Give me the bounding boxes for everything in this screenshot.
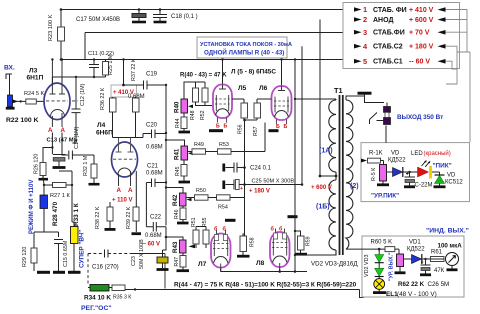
wire R28 bottom <box>34 209 59 249</box>
svg-text:Б: Б <box>224 124 228 130</box>
junction input <box>20 100 22 102</box>
svg-text:С15 0.65М: С15 0.65М <box>63 240 69 267</box>
svg-text:R34 10 K: R34 10 K <box>84 295 111 302</box>
wire terminal stubs right <box>446 10 471 143</box>
svg-text:R27 1 К: R27 1 К <box>50 193 70 199</box>
svg-text:РЕГ."ОС": РЕГ."ОС" <box>81 305 112 312</box>
svg-text:R48: R48 <box>190 110 196 120</box>
svg-text:R54: R54 <box>218 205 228 211</box>
meter 100uA <box>431 253 459 270</box>
terminal box power connector <box>343 3 460 69</box>
note box bias setting <box>197 37 287 58</box>
wire anode bus x295 <box>294 60 296 272</box>
svg-text:R53: R53 <box>219 142 229 148</box>
svg-text:R29 120: R29 120 <box>22 247 28 267</box>
resistor R23 <box>48 14 65 41</box>
svg-text:R60 5 K: R60 5 K <box>371 240 393 246</box>
capacitor C17 <box>132 10 146 23</box>
arrow R42 wiper <box>187 198 192 202</box>
svg-text:Л7: Л7 <box>198 261 207 268</box>
junction C19 node <box>165 84 167 86</box>
wire to jack <box>365 96 385 103</box>
diode VD2 green <box>378 249 380 254</box>
wire terminal4 drop to +180 <box>245 46 303 184</box>
wire C13 bottom row <box>59 171 72 185</box>
resistor R-1K <box>368 158 381 163</box>
ground output <box>358 92 372 95</box>
resistor R59 <box>298 236 305 250</box>
ground R39 <box>132 232 142 235</box>
junction +180 <box>301 183 304 186</box>
wire R42 row to R50 <box>186 197 195 199</box>
svg-text:R52: R52 <box>200 110 206 120</box>
svg-text:R33 1 К: R33 1 К <box>73 203 80 226</box>
ground bar L5 <box>209 129 223 132</box>
svg-text:100 мкА: 100 мкА <box>438 243 463 250</box>
wire anode join y77 <box>52 77 105 109</box>
svg-text:R32 1 М: R32 1 М <box>83 155 89 176</box>
svg-text:R40: R40 <box>174 101 181 113</box>
svg-text:R43: R43 <box>172 241 179 253</box>
svg-text:СТАБ.С2: СТАБ.С2 <box>373 44 403 51</box>
ground R22 <box>6 107 15 110</box>
svg-text:C20: C20 <box>146 123 158 129</box>
svg-text:б: б <box>214 226 218 233</box>
svg-text:"ПИК": "ПИК" <box>433 163 452 170</box>
tube L8 <box>270 229 290 272</box>
svg-text:R45: R45 <box>175 166 181 176</box>
terminal 1 arrow <box>354 7 362 12</box>
svg-text:C21: C21 <box>147 164 159 170</box>
ground bar left3 <box>68 271 81 274</box>
zener VD KS512 <box>434 175 446 187</box>
wire R27 left drop <box>43 176 44 196</box>
svg-text:Л (5 - 8) 6П45С: Л (5 - 8) 6П45С <box>231 69 276 76</box>
resistor R55 <box>203 230 209 244</box>
resistor R34 green <box>90 285 109 292</box>
ground R38 <box>105 228 116 231</box>
wire top +410 rail <box>61 9 354 11</box>
svg-text:LED: LED <box>411 151 423 157</box>
resistor R58 <box>240 236 247 252</box>
svg-text:6Н6П: 6Н6П <box>96 130 113 137</box>
svg-text:(48 V - 100 V): (48 V - 100 V) <box>397 291 437 298</box>
capacitor C18 <box>153 10 167 23</box>
resistor R56 <box>241 103 248 118</box>
svg-text:C16 (270): C16 (270) <box>92 265 119 271</box>
svg-text:+ 600 V: + 600 V <box>311 185 332 191</box>
svg-text:R55: R55 <box>202 217 208 227</box>
svg-text:5: 5 <box>363 57 367 66</box>
capacitor C23 <box>157 257 168 263</box>
resistor R28 blue <box>40 195 48 209</box>
resistor R36 <box>110 98 117 112</box>
wire terminal2 drop to transformer <box>319 20 321 177</box>
wire +410 box top <box>123 60 125 86</box>
wire L4 anode bus <box>113 112 136 138</box>
arrow R43 wiper <box>189 245 196 249</box>
resistor R52 <box>202 88 208 102</box>
svg-text:Т1: Т1 <box>334 86 343 95</box>
arrow R40 wiper <box>188 105 193 109</box>
svg-text:R50: R50 <box>196 188 206 194</box>
transformer primary 1B <box>295 176 336 255</box>
svg-text:+ 110 V: + 110 V <box>112 198 133 204</box>
wire LED to zener <box>432 172 440 176</box>
svg-text:+ 180 V: + 180 V <box>249 189 270 195</box>
svg-text:C17 50M X450B: C17 50M X450B <box>76 17 120 23</box>
junction R56 R57 <box>243 119 246 122</box>
svg-text:0.68М: 0.68М <box>146 145 163 151</box>
wire secondary top to ground <box>346 95 365 101</box>
svg-text:(красный): (красный) <box>424 150 451 157</box>
tube L3 <box>44 60 78 127</box>
svg-text:УСТАНОВКА ТОКА ПОКОЯ - 30мА: УСТАНОВКА ТОКА ПОКОЯ - 30мА <box>200 42 292 48</box>
svg-text:"ИНД. ВЫХ.": "ИНД. ВЫХ." <box>426 228 469 235</box>
wire R51 R55 tops <box>196 227 206 231</box>
resistor R61 <box>431 257 445 262</box>
svg-text:3: 3 <box>363 28 367 37</box>
capacitor C13 <box>53 155 66 168</box>
svg-text:СТАБ. ФИ: СТАБ. ФИ <box>373 7 407 14</box>
svg-text:+: + <box>240 186 243 192</box>
ground bar L7 top <box>225 219 236 222</box>
terminal 5 left arrow <box>438 59 446 64</box>
terminal 2 left arrow <box>438 17 446 22</box>
resistor R54 <box>217 195 231 200</box>
svg-text:R23 100 K: R23 100 K <box>48 14 54 41</box>
junction top R23 <box>60 8 63 11</box>
resistor R45 <box>181 165 187 177</box>
svg-text:+ 410 V: + 410 V <box>409 7 434 14</box>
potentiometer R43 <box>166 227 183 240</box>
svg-text:ВХ.: ВХ. <box>4 65 15 72</box>
svg-text:Л4: Л4 <box>97 122 106 129</box>
resistor R47 <box>180 256 186 268</box>
svg-text:VD: VD <box>391 151 400 157</box>
capacitor C14 <box>69 151 94 160</box>
svg-text:C12 (1М): C12 (1М) <box>80 83 86 106</box>
svg-text:(1А): (1А) <box>319 148 333 155</box>
svg-text:R38 22 K: R38 22 K <box>95 206 101 229</box>
capacitor C24 <box>224 163 245 173</box>
svg-text:VD1: VD1 <box>409 240 421 246</box>
label +410 box <box>111 85 137 97</box>
junction R41 node <box>165 139 167 141</box>
wire R33 column <box>72 185 74 227</box>
svg-text:R37 22 К: R37 22 К <box>131 58 137 81</box>
ground R46 <box>177 222 189 225</box>
ground bar L6 <box>269 129 279 132</box>
svg-text:Л8: Л8 <box>256 260 265 267</box>
capacitor C22 <box>146 222 166 232</box>
capacitor C12 <box>72 109 81 143</box>
ground bar left2 <box>53 271 65 274</box>
svg-text:R(44 - 47) = 75 K R(48 - 51): R(44 - 47) = 75 K R(48 - 51)=100 K R(52-… <box>174 282 357 289</box>
svg-text:50М X 100В: 50М X 100В <box>139 239 145 269</box>
svg-text:1: 1 <box>363 5 367 14</box>
svg-text:VD: VD <box>447 173 456 179</box>
svg-text:0.68М: 0.68М <box>128 94 145 100</box>
wire primary top <box>295 99 336 100</box>
svg-text:R36 22 К: R36 22 К <box>100 87 106 110</box>
resistor R35 <box>112 285 125 291</box>
wire R52 drop <box>204 102 206 106</box>
svg-text:"УР. ВЫХ.": "УР. ВЫХ." <box>389 252 395 281</box>
svg-text:6Н1П: 6Н1П <box>27 75 44 82</box>
wire dashed C16 <box>88 254 102 285</box>
svg-text:С-22М: С-22М <box>415 183 433 189</box>
svg-text:ВЫХОД 350 Вт: ВЫХОД 350 Вт <box>397 114 443 121</box>
potentiometer R62 <box>397 254 404 267</box>
tube L7 <box>211 230 231 271</box>
ground R45 <box>179 181 191 184</box>
arrow R41 wiper <box>188 152 193 156</box>
arrow input <box>13 99 19 103</box>
resistor R26 <box>40 163 46 176</box>
svg-text:А: А <box>117 187 122 194</box>
svg-text:R46: R46 <box>174 209 180 219</box>
ground R59 <box>295 253 308 256</box>
terminal 4 arrow <box>354 44 362 49</box>
ground R47 <box>177 269 190 272</box>
svg-text:R44: R44 <box>175 118 181 128</box>
diode VD1 <box>412 254 422 264</box>
terminal 3 arrow <box>354 30 362 35</box>
wire secondary to indicator box <box>346 248 385 250</box>
svg-text:VD2 VD3-Д816Д: VD2 VD3-Д816Д <box>311 261 358 268</box>
wire -60/anode rail <box>62 59 354 61</box>
svg-text:0.68М: 0.68М <box>146 171 163 177</box>
ground bar left1 <box>37 271 50 274</box>
wire input to grid <box>13 100 45 102</box>
svg-text:C22: C22 <box>150 215 162 221</box>
wire jack to peak box <box>385 126 387 143</box>
capacitor C19 <box>124 81 167 90</box>
arrow peak input <box>361 159 367 163</box>
transformer core <box>340 95 343 255</box>
svg-text:ОДНОЙ ЛАМПЫ R (40 - 43): ОДНОЙ ЛАМПЫ R (40 - 43) <box>204 49 284 57</box>
resistor R22 <box>8 95 13 107</box>
svg-text:0.68М: 0.68М <box>145 233 162 239</box>
svg-text:R28 470: R28 470 <box>52 201 59 226</box>
ground R44 <box>179 131 191 134</box>
resistor R32 <box>91 164 97 178</box>
svg-text:R57: R57 <box>253 126 259 136</box>
lamp EL1 <box>374 279 385 292</box>
svg-text:2: 2 <box>363 15 367 24</box>
output indicator box <box>362 236 464 297</box>
svg-text:Б: Б <box>216 124 220 130</box>
resistor R38 <box>107 207 113 221</box>
svg-text:-- 60 V: -- 60 V <box>409 59 430 66</box>
tube L5 <box>213 85 232 123</box>
svg-text:R(40 - 43) = 47 K: R(40 - 43) = 47 K <box>180 73 227 79</box>
svg-text:Л5: Л5 <box>238 85 247 92</box>
wire stab-fi +70 rail <box>85 32 354 34</box>
terminal 4 left arrow <box>438 44 446 49</box>
wire C24 C25 node column <box>244 158 246 236</box>
wire L3 cathode right <box>62 133 68 156</box>
wire column to C23 <box>163 237 167 250</box>
svg-text:+ 600 V: + 600 V <box>409 17 434 24</box>
capacitor C26 <box>420 261 431 275</box>
terminal 2 arrow <box>354 17 362 22</box>
capacitor C16 <box>105 250 109 258</box>
wire node x85 <box>84 33 86 60</box>
wire VD1 out <box>422 259 430 265</box>
svg-text:R42: R42 <box>172 194 179 206</box>
svg-text:С25 50М X 300В: С25 50М X 300В <box>252 179 295 185</box>
diode VD KD522 <box>393 167 403 177</box>
svg-text:R49: R49 <box>194 142 204 148</box>
capacitor C11 <box>89 60 99 78</box>
junction R42 node <box>165 186 167 188</box>
resistor R49 <box>192 149 206 154</box>
svg-text:R59: R59 <box>306 236 312 246</box>
svg-text:R-5 К: R-5 К <box>371 167 377 181</box>
potentiometer R42 <box>166 188 183 194</box>
potentiometer R33 super <box>71 227 79 244</box>
resistor R27 <box>53 183 67 188</box>
resistor R60 <box>385 247 395 252</box>
svg-text:R61: R61 <box>431 250 443 256</box>
svg-text:СТАБ.ФИ: СТАБ.ФИ <box>373 30 405 37</box>
capacitor C21 <box>146 179 166 227</box>
ground EL1 <box>373 291 386 294</box>
svg-text:R41: R41 <box>174 148 181 160</box>
svg-text:R62 22 K: R62 22 K <box>398 281 425 288</box>
svg-text:R22 100 K: R22 100 K <box>6 117 39 124</box>
svg-text:C24 0.1: C24 0.1 <box>250 166 272 172</box>
diode VD3 green <box>378 263 380 269</box>
capacitor C-22M <box>404 172 415 187</box>
wire R41 row to R49 <box>188 151 193 153</box>
svg-text:R47: R47 <box>174 257 180 267</box>
svg-text:С23: С23 <box>131 256 137 266</box>
junction coupling column <box>165 132 167 134</box>
ground R58 <box>237 255 250 258</box>
svg-text:C13 (47 М): C13 (47 М) <box>47 138 76 144</box>
junction peak <box>408 171 411 174</box>
junction L3 anodes <box>51 58 53 60</box>
potentiometer R-5K <box>380 165 387 182</box>
svg-text:VD2 VD3: VD2 VD3 <box>364 255 370 277</box>
svg-text:КС512: КС512 <box>445 180 463 186</box>
svg-text:R39 22 К: R39 22 К <box>126 206 132 229</box>
svg-text:КД522: КД522 <box>388 158 406 164</box>
svg-text:СТАБ.С1: СТАБ.С1 <box>373 59 403 66</box>
resistor R24 <box>26 99 37 104</box>
resistor R25 <box>103 62 109 76</box>
ground R-5K <box>377 183 389 186</box>
resistor R53 <box>218 149 232 154</box>
terminal 1 left arrow <box>438 7 446 12</box>
potentiometer R41 <box>166 140 185 146</box>
svg-text:R35 3 К: R35 3 К <box>113 295 131 301</box>
junction R23 bottom <box>60 58 63 61</box>
svg-text:R56: R56 <box>238 124 244 134</box>
wire L5 anode <box>222 60 224 86</box>
wire peak chain <box>387 171 418 173</box>
output jack <box>370 103 391 125</box>
potentiometer R40 <box>181 99 188 113</box>
tube L4 <box>112 138 138 187</box>
svg-text:Л3: Л3 <box>29 68 38 75</box>
svg-text:А: А <box>128 187 133 194</box>
wire L6 anode <box>281 60 283 87</box>
wire center tap <box>320 175 336 177</box>
ground R32 <box>89 183 100 186</box>
input connector <box>6 74 12 95</box>
terminal 5 arrow <box>354 59 362 64</box>
svg-text:б: б <box>271 226 275 233</box>
svg-text:РЕЖИМ Ф И +110V: РЕЖИМ Ф И +110V <box>29 180 35 234</box>
svg-text:"УР.ПИК": "УР.ПИК" <box>371 193 399 200</box>
tube L6 <box>272 86 292 124</box>
peak indicator box <box>361 143 470 202</box>
resistor R50 <box>195 195 209 200</box>
ground bar L8 top <box>288 215 298 218</box>
resistor R39 <box>133 207 139 221</box>
resistor R29 <box>31 248 37 263</box>
transformer secondary 2 <box>346 100 353 249</box>
svg-text:R58: R58 <box>250 237 256 247</box>
svg-text:СУПЕР "ВЧ": СУПЕР "ВЧ" <box>79 230 86 268</box>
capacitor C15 <box>54 240 63 272</box>
svg-text:R51: R51 <box>191 217 197 227</box>
svg-text:C14 (1М): C14 (1М) <box>74 126 80 149</box>
wire R48 to L5 grid <box>196 102 213 106</box>
svg-text:Б: Б <box>284 124 288 130</box>
LED red <box>418 160 433 179</box>
svg-text:47К: 47К <box>434 268 445 274</box>
capacitor C25 <box>224 180 245 190</box>
svg-text:А: А <box>61 127 66 134</box>
svg-text:АНОД: АНОД <box>373 17 393 24</box>
transformer primary 1A <box>329 100 336 176</box>
svg-text:R24 5 K: R24 5 K <box>24 91 44 97</box>
svg-text:C19: C19 <box>146 72 158 78</box>
resistor R46 <box>180 208 186 220</box>
wire grid bus upper <box>184 82 205 99</box>
svg-text:С26 5М: С26 5М <box>428 281 450 288</box>
wire input column <box>60 10 62 60</box>
svg-text:R26 120: R26 120 <box>34 154 40 174</box>
resistor R48 <box>193 88 199 102</box>
svg-text:(1Б): (1Б) <box>316 204 330 211</box>
terminal 3 left arrow <box>438 30 446 35</box>
capacitor C20 <box>136 130 167 139</box>
svg-text:R-1K: R-1K <box>369 151 383 157</box>
svg-text:+ 180 V: + 180 V <box>409 44 434 51</box>
svg-text:R25 1 М: R25 1 М <box>108 54 114 75</box>
resistor R37 <box>133 98 140 112</box>
svg-text:+ 70 V: + 70 V <box>409 30 430 37</box>
wire cathode bus lower <box>221 269 307 272</box>
svg-text:Л6: Л6 <box>259 85 268 92</box>
wire dashed C16 right <box>108 253 131 255</box>
resistor R57 <box>254 103 261 118</box>
ground R26 <box>39 176 49 180</box>
wire R62 to VD1 <box>404 258 412 260</box>
svg-text:(2): (2) <box>350 183 359 190</box>
svg-text:Б: Б <box>276 124 280 130</box>
svg-text:C18 (0,1 ): C18 (0,1 ) <box>171 14 198 20</box>
svg-text:КД522: КД522 <box>407 247 425 253</box>
wire coupling column <box>165 85 167 226</box>
resistor R51 <box>193 230 199 244</box>
